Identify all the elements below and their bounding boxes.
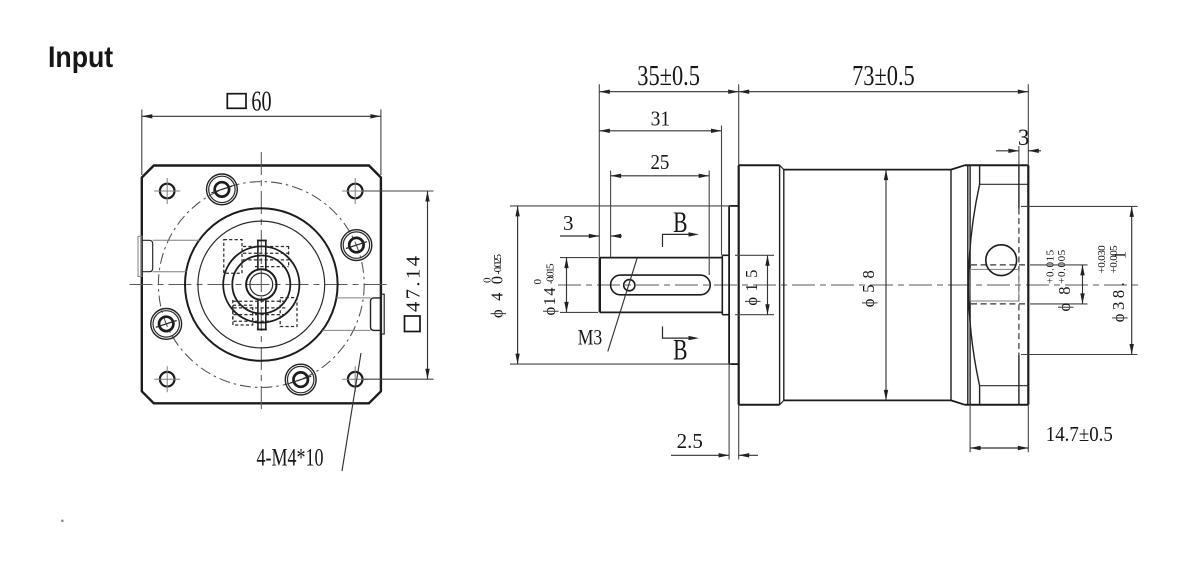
centerline axis	[558, 284, 1143, 286]
svg-text:+0.005: +0.005	[1108, 245, 1120, 274]
svg-text:0: 0	[482, 277, 494, 283]
svg-text:B: B	[673, 205, 687, 238]
svg-text:0: 0	[532, 279, 544, 285]
svg-text:35±0.5: 35±0.5	[637, 61, 700, 92]
svg-text:2.5: 2.5	[677, 429, 703, 453]
dimension 25	[611, 151, 710, 275]
svg-text:ϕ15: ϕ15	[742, 270, 761, 306]
dimension 3 recess depth	[996, 125, 1041, 153]
svg-text:M3: M3	[578, 326, 602, 350]
body phi58	[784, 165, 965, 405]
svg-text:47.14: 47.14	[403, 256, 425, 312]
svg-text:ϕ58: ϕ58	[859, 270, 878, 307]
centerline horizontal	[130, 284, 392, 286]
dimension phi40	[482, 206, 732, 364]
svg-text:60: 60	[251, 86, 271, 117]
svg-text:B: B	[673, 333, 687, 366]
input shaft	[600, 255, 723, 314]
keyway	[611, 275, 711, 295]
rear flange	[965, 84, 1028, 452]
phi40 pilot	[729, 206, 739, 364]
M4 hole top-right	[342, 178, 368, 204]
hub circle r11	[250, 273, 273, 296]
counterbore hole left	[151, 309, 182, 340]
M3 hole	[624, 280, 635, 291]
phi15 ring	[722, 255, 729, 314]
M4 hole bottom-left	[154, 366, 180, 392]
counterbore hole top	[207, 174, 238, 205]
left tab	[138, 236, 200, 276]
svg-text:+0.015: +0.015	[1044, 249, 1056, 283]
svg-text:+0.030: +0.030	[1096, 245, 1108, 274]
svg-text:-0.015: -0.015	[545, 263, 557, 284]
counterbore hole bottom	[285, 364, 316, 395]
hidden gear teeth top	[243, 246, 289, 267]
section mark B bottom	[663, 326, 700, 366]
svg-text:14.7±0.5: 14.7±0.5	[1046, 423, 1113, 446]
dimension 31	[599, 108, 721, 255]
svg-text:3: 3	[1018, 125, 1030, 150]
bore circle r63	[198, 221, 325, 348]
slot lines	[257, 241, 267, 330]
dimension square60	[142, 86, 381, 175]
svg-text:73±0.5: 73±0.5	[852, 61, 915, 92]
svg-text:ϕ14: ϕ14	[540, 288, 559, 316]
section mark B top	[663, 205, 700, 247]
counterbore hole right	[341, 230, 372, 261]
dimension phi38.1	[1021, 206, 1138, 354]
centerline vertical	[260, 152, 262, 414]
dimension phi15	[735, 255, 774, 314]
dimension 14.7	[970, 405, 1113, 452]
dimension 2.5	[671, 364, 758, 459]
dimension phi14	[532, 258, 598, 316]
M3 leader	[608, 259, 637, 352]
front flange outline	[142, 166, 381, 404]
M4 hole bottom-right	[342, 366, 368, 392]
hub circle r15	[246, 269, 276, 299]
dimension square47.14	[363, 191, 434, 379]
svg-text:3: 3	[563, 211, 574, 235]
dimension phi58	[859, 170, 888, 401]
stray dot	[61, 520, 64, 523]
bolt circle	[158, 182, 364, 388]
hidden gear teeth bottom	[233, 300, 286, 322]
right tab	[322, 294, 384, 334]
svg-text:31: 31	[651, 108, 671, 131]
gear circle r38	[223, 246, 299, 322]
dimension 3 keyway offset	[560, 211, 622, 238]
dimension phi8	[1030, 249, 1088, 311]
dimension 35 / 73	[599, 61, 1028, 258]
M4 hole top-left	[154, 178, 180, 204]
svg-text:Input: Input	[48, 41, 114, 75]
bore circle r76	[185, 208, 338, 361]
gear circle r29	[232, 256, 290, 314]
svg-text:25: 25	[650, 151, 669, 174]
label 4-M4*10	[257, 353, 361, 471]
svg-text:+0.005: +0.005	[1056, 249, 1068, 283]
hidden planet gear rects	[224, 240, 297, 327]
svg-text:4-M4*10: 4-M4*10	[257, 444, 324, 472]
svg-text:-0.025: -0.025	[492, 254, 504, 275]
front flange side face	[739, 84, 784, 459]
